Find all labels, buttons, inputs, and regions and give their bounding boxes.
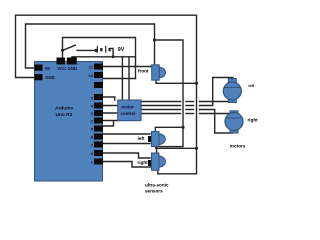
battery BT1 9V (97, 46, 109, 53)
svg-text:Arduino: Arduino (55, 106, 73, 112)
junction node battery-return (112, 55, 115, 58)
svg-text:VCC: VCC (57, 66, 66, 71)
junction node front sensor bottom (195, 82, 198, 85)
wire motor bus line 4 (141, 113, 181, 115)
svg-text:9V: 9V (118, 47, 125, 53)
pin 9 (94, 126, 103, 132)
ultrasonic sensor front (152, 65, 166, 80)
switch S1 (61, 45, 98, 52)
svg-text:GND: GND (45, 75, 55, 80)
wire switch top loop (63, 38, 136, 79)
svg-text:front: front (138, 68, 149, 73)
svg-text:ultra-sonic: ultra-sonic (145, 183, 169, 188)
pin 3 (94, 110, 103, 116)
Arduino Uno R3 board U1 (35, 62, 103, 182)
svg-text:Uno R3: Uno R3 (56, 112, 73, 118)
ultrasonic sensor right (148, 153, 165, 170)
wire front sensor bottom (156, 81, 197, 84)
wire pin8 to left sensor (103, 133, 150, 135)
wire pin7 to left sensor (103, 143, 150, 145)
wire 9V inner loop (26, 24, 155, 68)
wire motor bus line 2 (141, 105, 181, 107)
svg-text:10: 10 (89, 73, 94, 78)
svg-text:left: left (138, 136, 145, 141)
pin 5 (94, 94, 103, 100)
wire pin5 to motor control top (103, 97, 115, 100)
pin 10 (94, 72, 103, 78)
pin 7 (94, 142, 103, 148)
wire pin10 (103, 78, 136, 80)
pin 2 (94, 118, 103, 124)
wire motor bus line 3 (141, 109, 181, 111)
svg-text:motor: motor (121, 105, 134, 110)
wire pin11 to front sensor (103, 66, 152, 68)
wire battery return (72, 56, 136, 58)
wire pin4 to motor control (103, 105, 119, 107)
svg-text:sensors: sensors (145, 189, 163, 194)
wire left sensor bottom (156, 147, 197, 149)
svg-text:9V: 9V (45, 66, 50, 71)
wire gnd feed to motor control (128, 57, 130, 100)
pin 4 (94, 103, 103, 109)
wire GND outer loop (16, 15, 197, 174)
wire left sensor top (155, 127, 183, 131)
junction node gnd lower (195, 147, 198, 150)
motor M2 right (225, 111, 243, 133)
pin VCC top (57, 58, 66, 65)
wire pin9 to motor control bottom (103, 122, 114, 127)
junction node 9V rail (153, 38, 156, 41)
pin GND left (35, 74, 43, 80)
wire 9V branch to right rail (155, 40, 184, 153)
svg-text:control: control (121, 111, 136, 116)
svg-text:motors: motors (230, 144, 246, 149)
svg-text:right: right (248, 118, 259, 123)
wire switch to battery (77, 49, 96, 51)
wire pin3 to motor control (103, 112, 119, 114)
pin 11 (94, 64, 103, 70)
wire pin1 to right sensor (103, 162, 151, 168)
motor M1 left (223, 79, 241, 103)
motor control module U2 (118, 100, 141, 121)
svg-text:left: left (248, 83, 255, 88)
pin unlabeled (94, 82, 103, 88)
svg-text:right: right (138, 160, 149, 165)
pin GND top (67, 58, 77, 65)
ultrasonic sensor left (148, 132, 165, 147)
pin 6 (94, 150, 103, 156)
wire battery to return (110, 48, 114, 56)
wire pin2 to motor control (103, 120, 119, 122)
wire motor bus line 1 (141, 101, 181, 103)
svg-text:GND: GND (68, 66, 78, 71)
junction node left sensor top (181, 126, 184, 129)
pin 1 (94, 159, 103, 165)
wire pin6 to right sensor (103, 153, 150, 158)
wire vcc feed to motor control (121, 57, 123, 100)
pin 9V left (35, 65, 43, 71)
pin 8 (94, 134, 103, 140)
